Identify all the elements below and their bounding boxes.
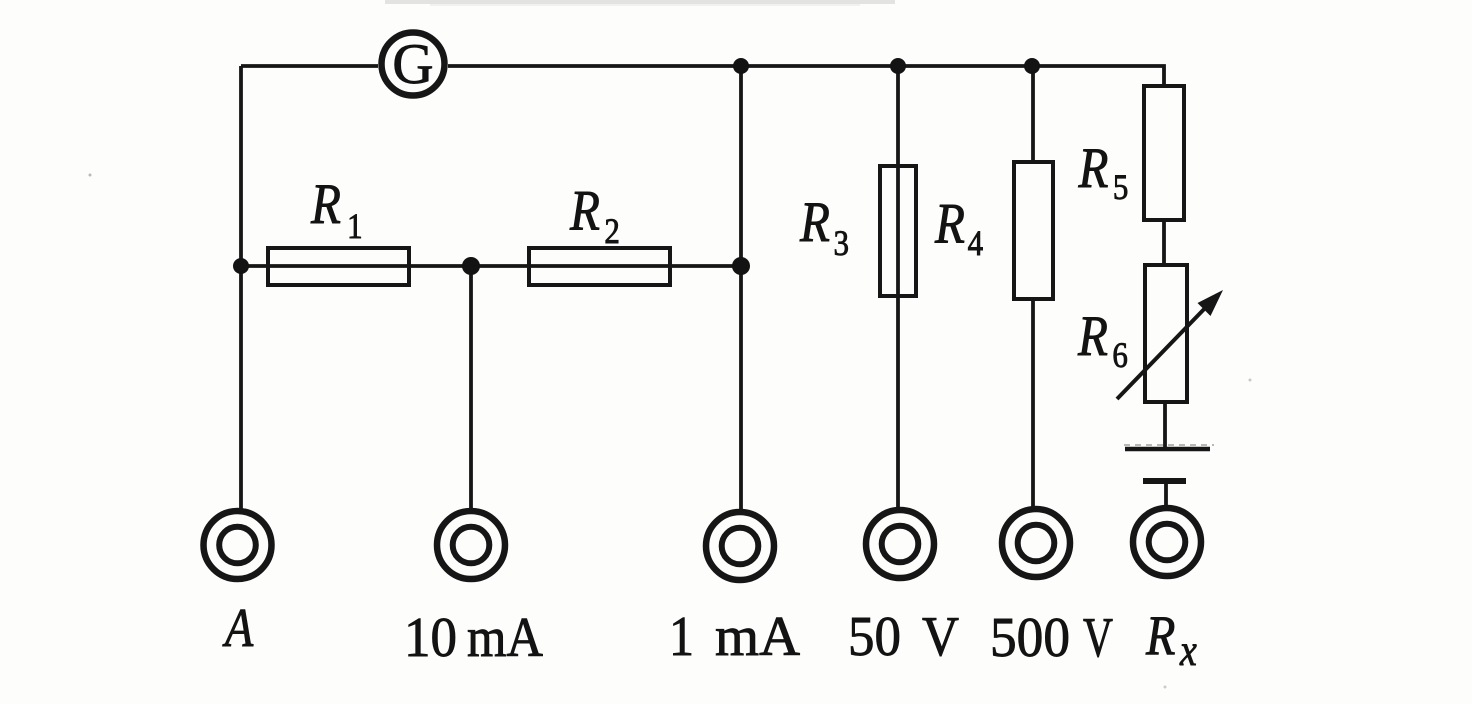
label R5 <box>1078 138 1129 208</box>
svg-text:500: 500 <box>990 607 1070 669</box>
label A <box>222 597 254 658</box>
wire G to top-right corner down to R5 <box>448 66 1164 87</box>
label Rx <box>1145 605 1197 675</box>
svg-text:R: R <box>1078 138 1109 200</box>
svg-text:x: x <box>1179 625 1197 674</box>
arrow of variable resistor R6 <box>1117 290 1223 399</box>
wire R6 to battery <box>1163 402 1167 449</box>
resistor R5 <box>1144 86 1184 220</box>
junction node top R4 <box>1024 58 1040 74</box>
wire middle horizontal <box>241 264 741 268</box>
resistor R4 <box>1014 162 1053 299</box>
resistor R2 <box>529 248 670 285</box>
svg-text:R: R <box>934 193 965 255</box>
label 50 V <box>848 606 959 668</box>
wire battery to Rx terminal <box>1164 481 1168 509</box>
svg-text:5: 5 <box>1113 168 1128 208</box>
svg-text:mA: mA <box>467 607 544 669</box>
junction node top 1mA <box>733 58 749 74</box>
resistor R3 <box>880 166 916 296</box>
junction node left middle <box>233 258 249 274</box>
wire left vertical <box>239 66 243 512</box>
wire R5 to R6 <box>1162 220 1166 266</box>
wire 1mA vertical <box>739 66 743 513</box>
wire R4 column bottom <box>1031 298 1035 510</box>
svg-text:R: R <box>799 192 830 254</box>
label 10 mA <box>404 607 544 669</box>
svg-text:R: R <box>569 180 600 242</box>
svg-text:V: V <box>922 606 959 668</box>
battery B1 long plate <box>1125 447 1210 452</box>
label R1 <box>310 174 363 247</box>
label 1 mA <box>669 606 801 668</box>
junction node top R3 <box>890 58 906 74</box>
wire R4 column top <box>1031 66 1035 163</box>
svg-text:A: A <box>222 597 254 658</box>
galvanometer G <box>382 33 445 97</box>
svg-text:6: 6 <box>1112 336 1127 376</box>
wire top-left to G <box>241 64 378 68</box>
terminal 1 mA <box>706 512 774 580</box>
battery B1 residue dashes <box>1124 444 1214 446</box>
svg-text:2: 2 <box>604 212 619 252</box>
terminal 10 mA <box>437 511 505 579</box>
terminal A <box>204 511 272 579</box>
svg-text:G: G <box>392 33 433 96</box>
svg-text:1: 1 <box>347 207 362 247</box>
terminal Rx <box>1133 508 1201 576</box>
svg-text:R: R <box>1145 605 1175 667</box>
svg-text:R: R <box>1077 306 1108 368</box>
label R6 <box>1077 306 1128 376</box>
terminal 500 V <box>1002 509 1070 577</box>
battery B1 short plate <box>1143 478 1186 484</box>
label R3 <box>799 192 849 264</box>
label R2 <box>569 180 620 251</box>
wire R3 column <box>896 66 900 510</box>
svg-text:50: 50 <box>848 606 901 668</box>
label 500 V <box>990 607 1113 669</box>
terminal 50 V <box>866 510 934 578</box>
wire 10mA vertical <box>469 266 473 512</box>
junction node right middle <box>732 257 750 275</box>
svg-text:1: 1 <box>669 606 694 668</box>
resistor R1 <box>268 248 409 285</box>
svg-text:mA: mA <box>715 606 801 668</box>
junction node middle <box>462 257 480 275</box>
svg-text:4: 4 <box>968 224 984 264</box>
specks <box>89 174 92 177</box>
svg-text:10: 10 <box>404 607 457 669</box>
svg-text:V: V <box>1083 607 1113 669</box>
scan artifact top edge <box>385 0 895 4</box>
svg-text:3: 3 <box>834 224 849 264</box>
resistor R6 (variable) <box>1145 265 1187 402</box>
svg-text:R: R <box>310 174 341 236</box>
label R4 <box>934 193 983 263</box>
